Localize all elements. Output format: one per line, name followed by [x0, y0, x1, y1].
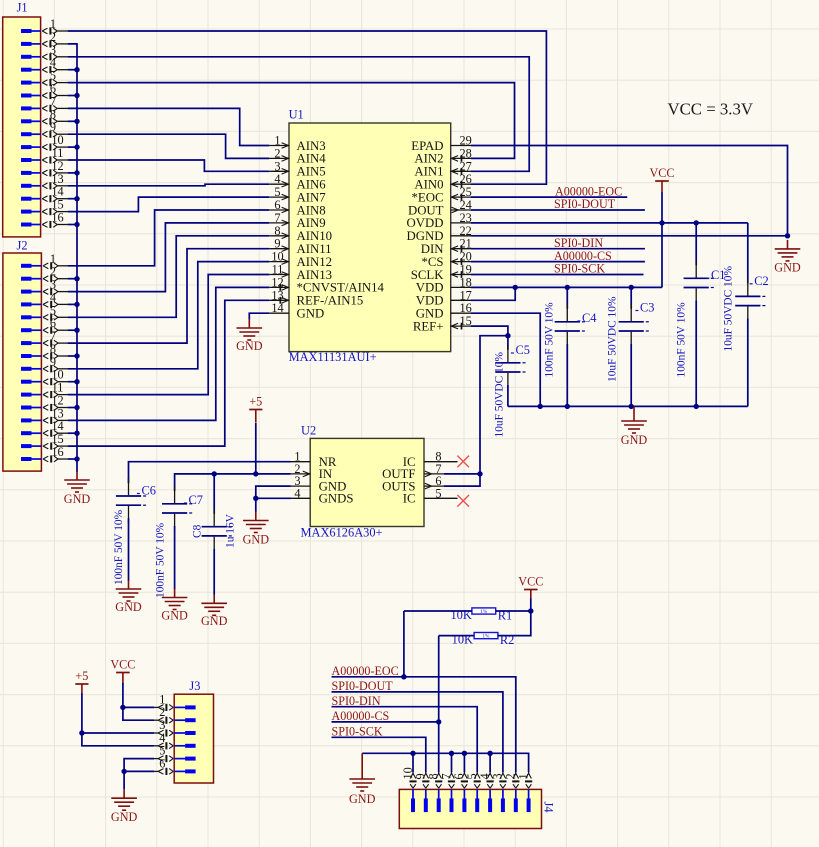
junction J1 pin 16 / ground bus [74, 222, 79, 227]
wire +5 to U2 IN [255, 423, 257, 474]
ground under C7 [161, 589, 188, 623]
junction C1 / ground rail [694, 404, 699, 409]
J4 pin 3 [491, 772, 507, 813]
wire U1 OVDD to VCC rail / C1 / C2 [471, 222, 748, 224]
svg-text:29: 29 [460, 134, 472, 148]
J1 pin 12 [21, 159, 68, 177]
ground at J4 [349, 770, 376, 806]
wire J4 ground pin at x=464 [463, 753, 465, 772]
wire J1 pin 7 to U1 AIN3 [68, 108, 270, 145]
no-connect X on U2 pin 8 [457, 456, 469, 468]
svg-text:13: 13 [271, 288, 283, 302]
junction R1/R2/VCC [528, 608, 533, 613]
svg-text:14: 14 [51, 185, 63, 199]
svg-text:2: 2 [50, 265, 56, 279]
svg-text:12: 12 [51, 159, 63, 173]
wire R2 right to VCC node [498, 611, 531, 636]
J1 pin 5 [21, 69, 68, 87]
J2 pin 3 [21, 278, 68, 296]
U1 pin 4 AIN6 [269, 172, 326, 191]
U2 pin 5 IC [403, 486, 458, 505]
svg-text:10: 10 [271, 250, 283, 264]
J4 pin 6 [452, 772, 468, 813]
svg-text:11: 11 [272, 263, 284, 277]
J1 pin 15 [21, 198, 68, 216]
svg-text:3: 3 [50, 43, 56, 57]
svg-text:3: 3 [274, 159, 280, 173]
U1 pin 27 AIN1 [414, 159, 471, 178]
J4 pin 9 [414, 772, 430, 813]
wire J4 ground pin at x=490 [489, 753, 491, 772]
ground under U1 pin14 [236, 319, 263, 353]
svg-text:5: 5 [50, 69, 56, 83]
svg-text:OVDD: OVDD [407, 216, 444, 230]
U2 pin 2 IN [291, 462, 333, 481]
resistor R1 10K 1% [450, 608, 512, 622]
U1 pin 25 *EOC [412, 185, 472, 204]
J1 pin 13 [21, 172, 68, 190]
wire net SPI0-SCK to J4 pin 9 [332, 737, 426, 772]
wire C8 to ground [213, 549, 215, 595]
capacitor C4 [555, 303, 585, 349]
svg-text:4: 4 [294, 486, 300, 500]
wire C5 bottom [507, 385, 509, 406]
J2 pin 13 [21, 406, 68, 424]
junction +5 / U2 IN wire [253, 471, 258, 476]
label C6 [137, 484, 156, 498]
junction J1 pin 10 / ground bus [74, 144, 79, 149]
junction C8 / U2 IN wire [212, 471, 217, 476]
svg-text:10uF 50VDC 10%: 10uF 50VDC 10% [723, 266, 735, 352]
svg-text:GND: GND [201, 614, 228, 628]
svg-text:4: 4 [50, 290, 56, 304]
J2 pin 10 [21, 368, 68, 386]
U1 pin 8 AIN10 [269, 224, 332, 243]
power symbol VCC (VCC at R1/R2) [518, 575, 543, 599]
wire J2 pin 14 to ground bus [68, 432, 77, 434]
svg-text:16: 16 [460, 301, 472, 315]
svg-text:10: 10 [51, 133, 63, 147]
capacitor C1 [684, 260, 714, 306]
J2 pin 15 [21, 432, 68, 450]
svg-text:A00000-EOC: A00000-EOC [555, 184, 622, 198]
junction J1 pin 6 / ground bus [74, 93, 79, 98]
svg-text:MAX11131AUI+: MAX11131AUI+ [289, 350, 377, 364]
svg-text:9: 9 [50, 120, 56, 134]
J1 pin 8 [21, 107, 68, 125]
wire J1 pin 3 to U1 AIN1 [68, 57, 530, 172]
wire J2 pin 8 to ground bus [68, 355, 77, 357]
svg-text:VCC = 3.3V: VCC = 3.3V [668, 100, 753, 119]
wire J2 pin 11 to U1 pin 11 [68, 275, 270, 395]
U1 pin 29 EPAD [411, 134, 472, 153]
junction EPAD/DGND ground node [785, 233, 790, 238]
U1 pin 16 GND [416, 301, 472, 320]
svg-text:AIN2: AIN2 [414, 152, 443, 166]
J2 pin 5 [21, 303, 68, 321]
power symbol +5 (+5 at J3) [75, 669, 88, 693]
junction J2 pin 8 / ground bus [74, 353, 79, 358]
svg-text:AIN1: AIN1 [414, 165, 443, 179]
wire J1 pin 14 to ground bus [68, 198, 77, 200]
wire J1 pin 1 to U1 AIN0 [68, 31, 547, 184]
wire J3 pin 6 to ground [124, 770, 154, 772]
svg-text:DIN: DIN [421, 242, 444, 256]
power symbol VCC (VCC at J3) [110, 658, 135, 685]
ground under U2 [243, 512, 270, 547]
svg-text:1: 1 [274, 134, 280, 148]
label C7 [184, 493, 203, 507]
svg-text:VCC: VCC [518, 575, 543, 589]
U1 pin 28 AIN2 [414, 146, 471, 165]
svg-text:SPI0-DIN: SPI0-DIN [554, 236, 603, 250]
svg-text:10uF 50VDC 10%: 10uF 50VDC 10% [494, 352, 506, 438]
U1 pin 24 DOUT [408, 198, 472, 217]
wire J4 ground pin at x=413 [412, 753, 414, 772]
wire C1 top [695, 223, 697, 265]
svg-text:AIN11: AIN11 [297, 242, 332, 256]
wire U2 NR to C6 [129, 462, 291, 484]
svg-text:15: 15 [460, 314, 472, 328]
junction J2 pin 10 / ground bus [74, 379, 79, 384]
wire U1 VDD pin17 to VDD rail [471, 287, 515, 300]
svg-text:AIN0: AIN0 [414, 178, 443, 192]
wire R1 right to VCC node [496, 610, 531, 612]
svg-text:AIN9: AIN9 [297, 216, 326, 230]
J2 pin 4 [21, 290, 68, 308]
junction C4 / VDD rail [565, 285, 570, 290]
svg-text:6: 6 [50, 316, 56, 330]
svg-text:2: 2 [274, 146, 280, 160]
svg-text:SCLK: SCLK [411, 268, 444, 282]
capacitor C2 [735, 278, 765, 324]
junction J2 pin 14 / ground bus [74, 431, 79, 436]
U2 pin 3 GND [291, 474, 347, 493]
ground ground bus [64, 471, 91, 506]
ground at DGND [774, 240, 801, 275]
svg-text:AIN13: AIN13 [297, 268, 333, 282]
J2 pin 14 [21, 419, 68, 437]
svg-text:11: 11 [52, 381, 64, 395]
svg-text:14: 14 [51, 419, 63, 433]
wire J2 pin 10 to ground bus [68, 381, 77, 383]
svg-text:SPI0-DOUT: SPI0-DOUT [554, 197, 616, 211]
wire J1 pin 10 to ground bus [68, 146, 77, 148]
svg-text:1: 1 [50, 17, 56, 31]
svg-text:J4: J4 [542, 802, 556, 813]
wire +5 to J3 pin 4 [82, 693, 154, 746]
svg-text:8: 8 [50, 107, 56, 121]
wire J3 pin 5 to ground [124, 759, 154, 790]
junction R2 / A00000-CS [436, 719, 441, 724]
svg-text:GND: GND [774, 261, 801, 275]
J1 pin 16 [21, 211, 68, 229]
U1 pin 6 AIN8 [269, 198, 325, 217]
svg-text:8: 8 [274, 224, 280, 238]
J1 pin 11 [21, 146, 68, 164]
wire J2 pin 5 to U1 pin 8 [68, 236, 270, 317]
svg-text:C5: C5 [516, 343, 530, 357]
wire U2 GNDS pin4 to ground node [256, 497, 291, 499]
U2 pin 1 NR [291, 450, 337, 469]
svg-text:100nF 50V 10%: 100nF 50V 10% [113, 509, 125, 585]
svg-text:GND: GND [115, 600, 142, 614]
wire net A00000-EOC at U1 [471, 196, 627, 198]
label C3 [635, 301, 654, 315]
svg-text:REF-/AIN15: REF-/AIN15 [297, 294, 364, 308]
svg-text:GND: GND [161, 609, 188, 623]
wire net SPI0-DOUT at U1 [471, 209, 645, 211]
wire J2 pin 2 to ground bus [68, 278, 77, 280]
svg-text:6: 6 [50, 82, 56, 96]
wire J4 ground pin at x=452 [451, 753, 453, 772]
U1 pin 9 AIN11 [269, 237, 331, 256]
wire J1 pin 15 to U1 AIN7 [68, 197, 270, 212]
op-amp/IC U2 MAX6126A30+ [291, 424, 458, 540]
U1 pin 11 AIN13 [269, 263, 332, 282]
U1 pin 26 AIN0 [414, 172, 471, 191]
junction C4 / ground rail [565, 404, 570, 409]
op-amp/IC U1 MAX11131AUI+ [269, 107, 471, 364]
wire net SPI0-SCK at U1 [471, 274, 644, 276]
svg-text:12: 12 [51, 394, 63, 408]
svg-text:DOUT: DOUT [408, 203, 444, 217]
svg-text:DGND: DGND [407, 229, 444, 243]
svg-text:10uF 50VDC 10%: 10uF 50VDC 10% [607, 296, 619, 382]
U1 pin 3 AIN5 [269, 159, 325, 178]
wire VCC vertical [661, 192, 663, 287]
junction GND/GNDS [253, 496, 258, 501]
wire J1 pin 13 to U1 AIN6 [68, 184, 270, 186]
junction C1 / OVDD [694, 220, 699, 225]
wire net A00000-EOC to J4 pin 2 [332, 677, 516, 772]
svg-text:AIN5: AIN5 [297, 165, 326, 179]
wire REF+ node to U2 OUTS [444, 336, 508, 486]
svg-text:100nF 50V 10%: 100nF 50V 10% [676, 302, 688, 378]
connector J2 [3, 239, 68, 472]
svg-text:13: 13 [51, 172, 63, 186]
svg-text:AIN10: AIN10 [297, 229, 333, 243]
svg-text:14: 14 [271, 301, 283, 315]
junction REF+ / C5 [505, 333, 510, 338]
junction C3 / ground rail [629, 404, 634, 409]
junction J1 pin 8 / ground bus [74, 119, 79, 124]
svg-text:SPI0-DOUT: SPI0-DOUT [332, 679, 394, 693]
junction VDD17/VDD18 [513, 285, 518, 290]
wire C5 top [507, 336, 509, 350]
wire R1 left [404, 610, 472, 612]
J3 pin 6 [154, 756, 195, 775]
capacitor C8 [202, 508, 232, 554]
svg-text:5: 5 [435, 486, 441, 500]
svg-text:20: 20 [460, 250, 472, 264]
junction +5 / J3 pin3 [79, 730, 84, 735]
wire J2 pin 6 to ground bus [68, 329, 77, 331]
capacitor C5 [495, 344, 525, 390]
J2 pin 2 [21, 265, 68, 283]
wire net A00000-CS to J4 pin 8 [438, 722, 440, 772]
svg-text:25: 25 [460, 185, 472, 199]
wire C4 bottom [566, 344, 568, 406]
svg-text:7: 7 [50, 94, 56, 108]
wire U1 REF+ to C5 node [471, 326, 508, 336]
svg-text:12: 12 [271, 275, 283, 289]
svg-text:1%: 1% [480, 609, 488, 615]
svg-text:GND: GND [416, 307, 444, 321]
svg-text:VDD: VDD [416, 294, 444, 308]
U2 pin 6 OUTS [382, 474, 444, 493]
J2 pin 7 [21, 329, 68, 347]
svg-text:19: 19 [460, 263, 472, 277]
svg-text:REF+: REF+ [413, 319, 444, 333]
wire ground rail to GND symbol [633, 406, 635, 412]
wire J2 pin 15 to U1 pin 13 [68, 300, 270, 446]
wire J4 ground rail to GND [361, 753, 363, 770]
J1 pin 2 [21, 30, 68, 48]
ground under C8 [201, 594, 228, 628]
wire U2 GND pin3 to ground [256, 486, 291, 512]
U1 pin 15 REF+ [413, 314, 472, 333]
resistor R2 10K 1% [452, 633, 515, 647]
U2 pin 8 IC [403, 450, 458, 469]
wire C6 to ground [128, 518, 130, 581]
svg-text:SPI0-DIN: SPI0-DIN [332, 694, 381, 708]
wire J2 pin 1 to U1 pin 6 [68, 210, 270, 266]
junction J2 pin 2 / ground bus [74, 276, 79, 281]
junction J4 ground rail [487, 751, 492, 756]
wire J4 ground rail [362, 753, 528, 772]
J1 pin 7 [21, 94, 68, 112]
svg-text:4: 4 [274, 172, 280, 186]
J4 pin 5 [465, 772, 481, 813]
svg-text:AIN3: AIN3 [297, 139, 326, 153]
junction J2 pin 12 / ground bus [74, 405, 79, 410]
J3 pin 3 [154, 718, 195, 737]
svg-text:GND: GND [64, 492, 91, 506]
J2 pin 6 [21, 316, 68, 334]
U1 pin 23 OVDD [407, 211, 472, 230]
wire VCC to J3 pin 2 [123, 683, 154, 720]
wire J1 pin 6 to ground bus [68, 95, 77, 97]
wire C2 bottom [747, 319, 749, 407]
J3 pin 4 [154, 731, 195, 750]
svg-text:C2: C2 [754, 274, 768, 288]
svg-text:GND: GND [621, 433, 648, 447]
wire VCC to R1/R2 node [530, 599, 532, 612]
junction J4 ground rail [462, 751, 467, 756]
U1 pin 17 VDD [416, 288, 472, 307]
J1 pin 6 [21, 82, 68, 100]
capacitor C6 [116, 478, 146, 524]
svg-text:11: 11 [52, 146, 64, 160]
wire U2 OUTF to REF+ node [444, 473, 480, 475]
svg-text:J3: J3 [189, 679, 200, 693]
svg-text:5: 5 [50, 303, 56, 317]
power symbol VCC (main VCC) [649, 166, 674, 193]
svg-text:GNDS: GNDS [319, 492, 354, 506]
wire J1/J2 even-pin ground bus [68, 44, 77, 472]
svg-text:21: 21 [460, 237, 472, 251]
svg-text:SPI0-SCK: SPI0-SCK [332, 725, 383, 739]
wire J1 pin 8 to ground bus [68, 120, 77, 122]
svg-text:GND: GND [349, 792, 376, 806]
U2 pin 7 OUTF [382, 462, 444, 481]
U1 pin 12 *CNVST/AIN14 [269, 275, 384, 294]
svg-text:100nF 50V 10%: 100nF 50V 10% [543, 302, 555, 378]
ground capacitor rail [621, 412, 648, 447]
svg-text:GND: GND [297, 307, 325, 321]
ground under C6 [115, 580, 142, 614]
wire R2 left [439, 635, 474, 637]
wire J1 pin 4 to ground bus [68, 69, 77, 71]
svg-text:GND: GND [243, 533, 270, 547]
wire U1 EPAD to ground (top right loop) [471, 146, 788, 236]
svg-text:AIN7: AIN7 [297, 190, 327, 204]
svg-text:7: 7 [274, 211, 280, 225]
svg-text:EPAD: EPAD [411, 139, 443, 153]
svg-text:1u 16V: 1u 16V [225, 513, 237, 548]
svg-text:27: 27 [460, 159, 472, 173]
junction J2 pin 6 / ground bus [74, 328, 79, 333]
U1 pin 2 AIN4 [269, 146, 326, 165]
label C2 [750, 274, 769, 288]
svg-text:J1: J1 [17, 1, 28, 15]
svg-text:+5: +5 [249, 395, 262, 409]
junction J4 ground rail [449, 751, 454, 756]
J2 pin 16 [21, 445, 68, 463]
svg-text:4: 4 [50, 56, 56, 70]
connector J4 [399, 767, 555, 828]
junction VCC / J3 pin1 [120, 705, 125, 710]
connector J3 [154, 679, 213, 783]
U1 pin 21 DIN [421, 237, 472, 256]
wire J2 pin 12 to ground bus [68, 407, 77, 409]
U1 pin 5 AIN7 [269, 185, 326, 204]
junction C3 / VDD rail [629, 285, 634, 290]
wire U1 GND pin14 to ground [249, 313, 269, 319]
wire C3 top [630, 287, 632, 308]
U1 pin 7 AIN9 [269, 211, 325, 230]
wire net SPI0-DOUT to J4 pin 3 [332, 692, 503, 772]
svg-text:C3: C3 [640, 301, 654, 315]
svg-text:SPI0-SCK: SPI0-SCK [554, 262, 605, 276]
wire net SPI0-DIN at U1 [471, 248, 645, 250]
junction J1 pin 4 / ground bus [74, 67, 79, 72]
svg-text:AIN6: AIN6 [297, 178, 327, 192]
wire J2 pin 4 to ground bus [68, 303, 77, 305]
ground at J3 [111, 789, 138, 824]
svg-text:VCC: VCC [649, 166, 674, 180]
svg-text:A00000-EOC: A00000-EOC [332, 664, 399, 678]
junction J3 pin5/pin6 ground [121, 769, 126, 774]
capacitor C3 [619, 303, 649, 349]
wire C2 top [747, 223, 749, 284]
svg-text:26: 26 [460, 172, 472, 186]
svg-text:6: 6 [274, 198, 280, 212]
wire C7 to ground [174, 526, 176, 590]
svg-text:18: 18 [460, 275, 472, 289]
U1 pin 18 VDD [416, 275, 472, 294]
U1 pin 10 AIN12 [269, 250, 332, 269]
svg-text:16: 16 [51, 445, 63, 459]
wire J2 pin 7 to U1 pin 9 [68, 249, 270, 343]
svg-text:9: 9 [50, 355, 56, 369]
U1 pin 22 DGND [407, 224, 472, 243]
svg-text:IC: IC [403, 492, 416, 506]
svg-text:15: 15 [51, 198, 63, 212]
U1 pin 13 REF-/AIN15 [269, 288, 363, 307]
junction pin16 wire / ground rail [538, 404, 543, 409]
